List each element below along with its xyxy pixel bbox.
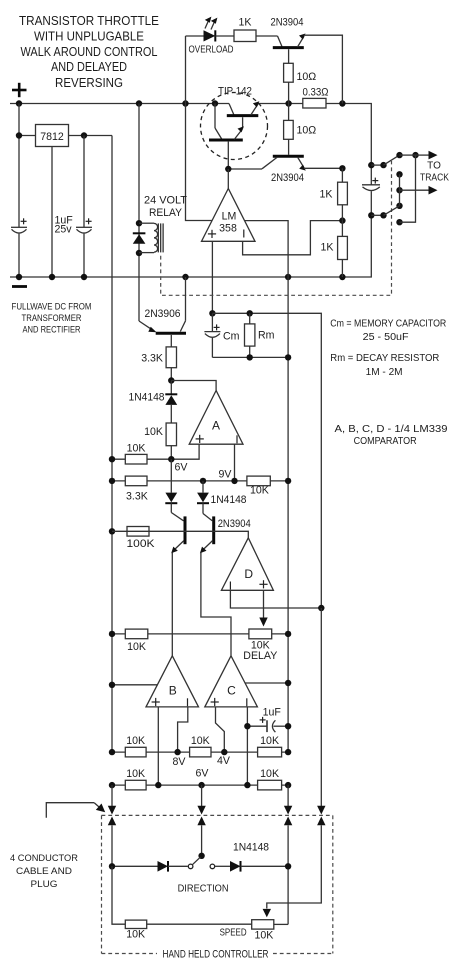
wire comparator A plus input to 6V row xyxy=(112,444,199,459)
svg-text:4V: 4V xyxy=(217,755,231,767)
svg-text:FULLWAVE DC FROM: FULLWAVE DC FROM xyxy=(12,301,92,312)
resistor R1 1K xyxy=(234,16,278,41)
transistor Q2 2N3904 lower xyxy=(262,156,306,184)
resistor R17 10K row1 right xyxy=(258,735,282,757)
resistor R20 10K bottom left xyxy=(125,920,251,941)
wire left rail down to cap C1 xyxy=(18,104,20,228)
wire Q6 emitter to comparator C apex xyxy=(201,553,231,656)
capacitor C4 1uF xyxy=(247,706,288,732)
resistor R11 10K 9V row xyxy=(247,476,270,496)
memory capacitor Cm xyxy=(204,310,239,357)
svg-text:COMPARATOR: COMPARATOR xyxy=(354,436,417,447)
node minus-2N3906 collector branch xyxy=(182,274,188,280)
svg-text:RELAY: RELAY xyxy=(149,207,182,219)
text fullwave note xyxy=(12,301,92,335)
resistor R14 10K delay row xyxy=(125,629,148,653)
diode D1 1N4148 xyxy=(129,381,178,424)
svg-text:25 - 50uF: 25 - 50uF xyxy=(363,332,409,343)
transistor Q6 2N3904 flipflop right xyxy=(200,514,251,554)
node delay row rail left xyxy=(109,631,115,637)
resistor R4 10ohm lower xyxy=(284,104,317,155)
wire 9V row xyxy=(112,480,288,482)
svg-text:6V: 6V xyxy=(196,767,210,779)
node B side rail left xyxy=(109,682,115,688)
svg-text:C: C xyxy=(227,684,236,698)
wire memory bus into comparator C side xyxy=(245,682,288,684)
capacitor C2 1uF electrolytic xyxy=(55,215,93,236)
resistor R6 1K lower xyxy=(321,221,348,277)
svg-text:1N4148: 1N4148 xyxy=(211,494,247,506)
comparator D xyxy=(221,538,273,591)
node decay bus junction xyxy=(318,605,324,611)
node rail-left vertical xyxy=(16,100,22,106)
LED emission arrows xyxy=(205,17,218,30)
capacitor C3 track electrolytic xyxy=(362,165,380,215)
capacitor C1 electrolytic xyxy=(11,218,27,233)
svg-text:10K: 10K xyxy=(144,426,163,438)
svg-text:Cm = MEMORY CAPACITOR: Cm = MEMORY CAPACITOR xyxy=(330,319,446,330)
svg-text:DIRECTION: DIRECTION xyxy=(178,883,229,894)
svg-text:TO: TO xyxy=(427,161,441,172)
svg-text:B: B xyxy=(169,684,177,698)
wire minus rail xyxy=(10,215,371,277)
resistor R8 10K vertical xyxy=(144,423,176,459)
svg-text:9V: 9V xyxy=(219,469,233,481)
svg-text:CABLE AND: CABLE AND xyxy=(16,866,72,877)
node 9V row to bus xyxy=(285,478,291,484)
node 3.3K bottom junction xyxy=(168,377,174,383)
svg-text:10K: 10K xyxy=(191,735,210,747)
node C minus junction xyxy=(244,782,250,788)
diode D2 1N4148 left xyxy=(165,459,177,512)
node Cm bottom to bus xyxy=(285,354,291,360)
svg-text:1N4148: 1N4148 xyxy=(129,392,165,404)
svg-text:3.3K: 3.3K xyxy=(141,352,163,364)
svg-text:10K: 10K xyxy=(126,768,145,780)
svg-text:1M - 2M: 1M - 2M xyxy=(366,367,403,378)
resistor R3 0.33ohm xyxy=(303,86,329,108)
node direction row bus xyxy=(285,863,291,869)
svg-text:10K: 10K xyxy=(260,735,279,747)
svg-text:2N3904: 2N3904 xyxy=(218,518,251,530)
switch S1 DPDT reversing xyxy=(371,151,437,226)
resistor R18 10K row2 left xyxy=(125,768,146,790)
svg-text:TRANSISTOR THROTTLE: TRANSISTOR THROTTLE xyxy=(19,14,159,28)
op-amp U1 LM358 xyxy=(202,169,256,241)
wire B plus input down to 6V row xyxy=(157,707,159,785)
svg-text:10Ω: 10Ω xyxy=(297,71,317,83)
resistor R2 10ohm upper xyxy=(284,63,317,103)
node 6V junction xyxy=(168,456,174,462)
svg-text:Cm: Cm xyxy=(223,330,240,342)
svg-text:AND DELAYED: AND DELAYED xyxy=(51,60,127,74)
node 1K top junction xyxy=(339,165,345,171)
dashed mechanical linkage relay to switch xyxy=(161,161,392,295)
wire direction row xyxy=(112,865,158,867)
svg-text:1K: 1K xyxy=(239,16,252,28)
node row2 rail left xyxy=(109,782,115,788)
wire cap C2 branch upper xyxy=(83,136,85,228)
svg-text:100K: 100K xyxy=(127,538,155,550)
node cap bottom pole xyxy=(368,212,374,218)
node 8V junction xyxy=(174,749,180,755)
diode D4 direction left xyxy=(158,861,188,872)
node minus-1K bottom xyxy=(339,274,345,280)
svg-text:1K: 1K xyxy=(320,189,333,201)
resistor R19 10K row2 right xyxy=(258,768,282,790)
node B plus junction xyxy=(155,782,161,788)
resistor R10 3.3K 9V row xyxy=(125,476,147,502)
transistor Q4 2N3906 xyxy=(139,277,186,347)
wire 3.3K junction to comparator A apex xyxy=(171,381,216,391)
potentiometer R13 10K delay xyxy=(243,629,288,662)
wire Q2 emitter to 1K top junction xyxy=(304,167,342,169)
text 4 conductor cable xyxy=(10,853,78,890)
node C side bus xyxy=(285,680,291,686)
svg-text:10K: 10K xyxy=(127,443,146,455)
wire comparator D plus to delay pot wiper xyxy=(263,590,265,618)
svg-text:24 VOLT: 24 VOLT xyxy=(144,194,188,206)
wire cap C2 to minus rail xyxy=(83,234,85,277)
resistor R9 10K 6V row xyxy=(125,443,147,464)
minus terminal symbol xyxy=(12,285,27,288)
node 1uF bus xyxy=(285,723,291,729)
svg-text:10K: 10K xyxy=(255,929,274,941)
wire delay row to left rail xyxy=(112,633,249,635)
wire LM358 minus input feedback loop xyxy=(243,221,343,255)
node 100K rail left xyxy=(109,528,115,534)
svg-text:358: 358 xyxy=(219,222,237,234)
wire 0.33 resistor to cap branch corner xyxy=(326,104,371,166)
node 9V rail left xyxy=(109,478,115,484)
svg-text:LM: LM xyxy=(222,211,237,223)
wire Cm top rail to decay bus xyxy=(212,313,321,608)
text Cm Rm notes xyxy=(330,319,448,447)
wire base row to comparator D apex xyxy=(112,531,248,538)
wire LM358 output to memory bus xyxy=(245,221,289,753)
resistor R5 1K upper xyxy=(320,168,348,220)
switch S2 direction xyxy=(188,853,230,869)
wire Cm bottom rail xyxy=(212,356,288,358)
svg-text:A, B, C, D - 1/4 LM339: A, B, C, D - 1/4 LM339 xyxy=(335,424,448,435)
svg-text:WALK AROUND CONTROL: WALK AROUND CONTROL xyxy=(21,45,158,59)
svg-text:A: A xyxy=(212,418,220,432)
node cap top pole xyxy=(368,162,374,168)
resistor R16 10K row1 middle xyxy=(190,735,211,757)
node row2 bus xyxy=(285,782,291,788)
node 7812 output cap xyxy=(81,132,87,138)
svg-text:10K: 10K xyxy=(260,768,279,780)
svg-text:10K: 10K xyxy=(250,484,269,496)
wire cap C1 to minus rail xyxy=(18,234,20,277)
node row1 rail left xyxy=(109,749,115,755)
node rail-TIP142 xyxy=(212,100,218,106)
svg-text:Rm = DECAY RESISTOR: Rm = DECAY RESISTOR xyxy=(330,353,439,364)
node direction row left xyxy=(109,863,115,869)
plug pin 3 memory bus xyxy=(284,785,292,924)
transistor Q3 TIP 142 darlington xyxy=(201,85,268,169)
wire comparator A minus input to 9V row xyxy=(234,444,236,481)
svg-text:10K: 10K xyxy=(126,929,145,941)
wire bottom left leg xyxy=(112,866,125,924)
svg-text:1N4148: 1N4148 xyxy=(233,842,269,854)
regulator U2 7812 xyxy=(19,125,112,147)
cable callout arrow xyxy=(46,803,105,818)
wire LM358 plus input down to Cm node xyxy=(211,241,213,313)
wire 6V lower row xyxy=(112,784,288,786)
resistor R15 10K row1 left xyxy=(125,735,146,757)
potentiometer R21 10K speed xyxy=(252,909,288,941)
svg-text:OVERLOAD: OVERLOAD xyxy=(189,45,234,56)
wire C plus input to 4V junction xyxy=(216,707,225,752)
wire +12V bus from 7812 down left side xyxy=(111,136,113,753)
svg-text:3.3K: 3.3K xyxy=(126,491,148,503)
wire C minus input down xyxy=(246,707,248,785)
wire Q5 emitter to comparator B apex xyxy=(171,553,173,656)
svg-text:2N3904: 2N3904 xyxy=(271,16,304,28)
dashed hand held controller box xyxy=(102,815,333,953)
svg-text:25v: 25v xyxy=(55,224,73,236)
title text xyxy=(19,14,159,90)
wire 8V 4V row xyxy=(112,751,288,753)
node 6V lower junction xyxy=(198,782,204,788)
svg-text:7812: 7812 xyxy=(40,131,64,143)
svg-text:Rm: Rm xyxy=(258,329,275,341)
node rail-relay xyxy=(136,100,142,106)
wire left rail into comparator B side xyxy=(112,684,158,686)
svg-text:TRACK: TRACK xyxy=(420,173,449,184)
node delay pot to bus xyxy=(285,631,291,637)
node minus-left rail xyxy=(16,274,22,280)
wire LED branch vertical xyxy=(186,36,213,221)
resistor R12 100K xyxy=(127,527,155,550)
svg-text:10K: 10K xyxy=(127,641,146,653)
svg-text:WITH UNPLUGABLE: WITH UNPLUGABLE xyxy=(34,29,144,43)
svg-text:DELAY: DELAY xyxy=(243,650,277,662)
wire top supply rail xyxy=(10,103,229,105)
transistor Q5 2N3904 flipflop left xyxy=(171,513,185,554)
node 1uF left xyxy=(244,723,250,729)
svg-text:AND RECTIFIER: AND RECTIFIER xyxy=(23,324,81,335)
node minus-feedback bus xyxy=(285,274,291,280)
wire Q1 emitter to 0.33 junction xyxy=(304,35,343,103)
wire comparator D minus to decay bus xyxy=(230,590,321,608)
svg-text:D: D xyxy=(244,567,253,581)
svg-text:6V: 6V xyxy=(175,461,189,473)
diode D5 1N4148 direction right xyxy=(230,842,288,872)
node rail-7812 input xyxy=(16,132,22,138)
diode D3 1N4148 right xyxy=(197,481,247,514)
node 6V rail left xyxy=(109,456,115,462)
node 9V comparator A junction xyxy=(231,478,237,484)
svg-text:0.33Ω: 0.33Ω xyxy=(303,86,329,98)
plug pin 1 common xyxy=(108,785,116,866)
node 9V diode junction xyxy=(200,478,206,484)
node minus-C2 xyxy=(81,274,87,280)
plug pin 4 speed bus xyxy=(267,608,326,909)
node minus-7812 gnd xyxy=(49,274,55,280)
svg-text:1uF: 1uF xyxy=(263,706,282,718)
svg-text:10K: 10K xyxy=(126,735,145,747)
svg-text:1K: 1K xyxy=(321,241,334,253)
wire B minus input to 8V junction xyxy=(178,707,188,752)
svg-text:HAND HELD CONTROLLER: HAND HELD CONTROLLER xyxy=(163,948,269,960)
wire TIP junction to Q2 base xyxy=(228,168,262,170)
svg-text:TRANSFORMER: TRANSFORMER xyxy=(22,313,82,324)
svg-text:2N3904: 2N3904 xyxy=(271,172,304,184)
node 4V junction xyxy=(221,749,227,755)
resistor Rm decay xyxy=(245,310,275,357)
node rail-LED branch xyxy=(182,100,188,106)
wire rail right of TIP142 to 0.33 resistor xyxy=(258,103,303,105)
node rail-10ohm xyxy=(285,100,291,106)
comparator C xyxy=(205,656,258,707)
resistor R7 3.3K xyxy=(141,347,176,381)
LED overload xyxy=(186,30,235,41)
plug pin 2 six volt xyxy=(197,785,205,853)
node Rm bottom xyxy=(247,354,253,360)
svg-text:SPEED: SPEED xyxy=(220,927,247,938)
svg-text:8V: 8V xyxy=(173,756,187,768)
transistor Q1 2N3904 top xyxy=(271,16,306,63)
comparator B xyxy=(146,656,199,707)
node row1 bus xyxy=(285,749,291,755)
comparator A xyxy=(189,391,243,445)
wire 7812 ground leg xyxy=(51,147,53,278)
node 0.33 output xyxy=(339,100,345,106)
relay RY1 24 volt coil and diode xyxy=(133,104,188,322)
plus terminal symbol xyxy=(12,83,27,97)
svg-text:2N3906: 2N3906 xyxy=(145,308,181,320)
svg-text:10Ω: 10Ω xyxy=(297,125,317,137)
node 1K mid junction xyxy=(339,217,345,223)
svg-text:4 CONDUCTOR: 4 CONDUCTOR xyxy=(10,853,78,864)
svg-text:REVERSING: REVERSING xyxy=(55,76,123,90)
node TIP base junction xyxy=(225,166,231,172)
svg-text:PLUG: PLUG xyxy=(31,879,58,890)
